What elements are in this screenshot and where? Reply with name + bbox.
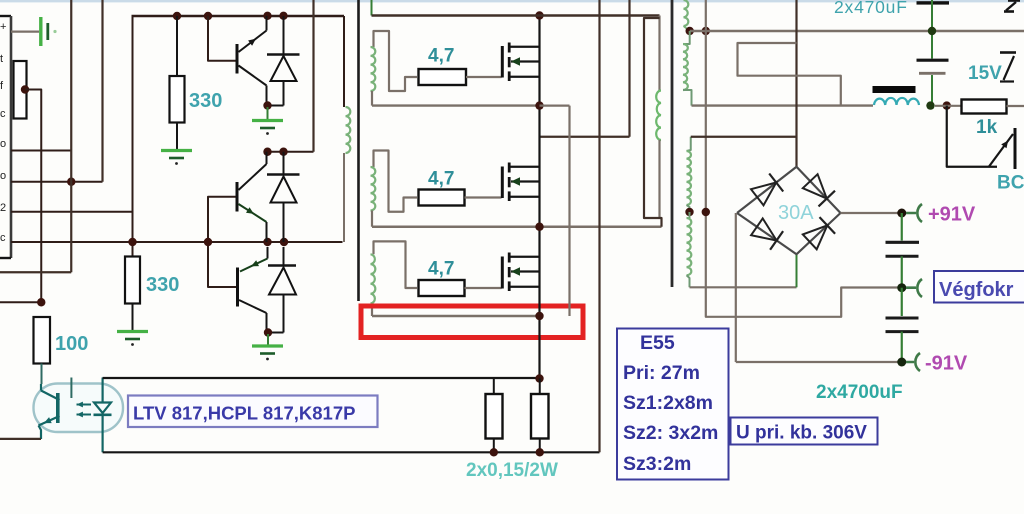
transistor Q2 [236, 152, 267, 242]
long vertical wire col x=600 [598, 0, 600, 452]
vertical wire col x=569 [568, 106, 570, 316]
transistor BC (cut at edge) [947, 106, 1017, 169]
ground under R3 [117, 332, 148, 346]
gate transformer core [357, 0, 360, 301]
svg-text:2: 2 [0, 202, 6, 214]
wire S3 to bridge bottom [690, 286, 797, 288]
wire row y=302 from left edge [0, 301, 41, 303]
svg-text:2x4700uF: 2x4700uF [816, 382, 903, 403]
supply rail y=16 left section [132, 15, 345, 17]
MOSFET M2 [501, 163, 540, 202]
junction dot col539 y316 [535, 312, 543, 320]
wire to Q1 base [208, 16, 236, 61]
zener 15V [1000, 53, 1016, 82]
IC pin wire row 4 (driver rail) [11, 241, 343, 243]
wire W3 return inside red box [372, 315, 540, 317]
resistor 4,7 (R7) [419, 280, 465, 296]
cap C1 lead green column [931, 0, 933, 59]
label box U pri [731, 418, 878, 445]
junction dot col539 y106 [535, 101, 543, 109]
svg-text:o: o [0, 170, 6, 182]
svg-text:15V: 15V [968, 63, 1002, 84]
svg-text:E55: E55 [640, 332, 675, 354]
junction dot row4 x132 [128, 238, 136, 246]
red highlight box [361, 306, 583, 338]
MOSFET source/drain column x=539 [538, 16, 540, 379]
center tap column x=705 [706, 0, 902, 317]
long vertical wire col x=629 [628, 0, 630, 137]
secondary winding S3 [687, 212, 692, 287]
diode D3 [267, 247, 297, 333]
cap C2 bottom lead [901, 256, 903, 287]
main transformer primary winding [644, 16, 662, 227]
capacitor C1 2x470uF [917, 60, 949, 73]
wire W1 return rail y=106 [372, 104, 540, 106]
junction dot x283 row151 [279, 148, 287, 156]
terminal Vegfok [906, 279, 922, 297]
IC pin wire row 3 [11, 211, 133, 213]
junction dot col539 top rail [535, 11, 543, 19]
svg-text:+91V: +91V [928, 204, 976, 226]
zener at top right (cut) [1004, 1, 1020, 12]
capacitor C2 [886, 242, 920, 256]
junction dot Rb bottom [536, 448, 544, 456]
junction dot col539 y227 [535, 223, 543, 231]
opto top rail to sense resistors [103, 377, 541, 379]
junction dot sec top x689 [686, 27, 694, 35]
feedback resistor block at IC edge [14, 61, 27, 119]
R3 lead to ground [132, 304, 134, 331]
junction dot -91V [897, 358, 906, 367]
svg-text:330: 330 [189, 90, 222, 112]
svg-text:BC5: BC5 [997, 173, 1024, 194]
svg-text:Sz3:2m: Sz3:2m [623, 453, 691, 475]
svg-text:30A: 30A [778, 202, 814, 224]
svg-text:Végfokr: Végfokr [939, 279, 1014, 301]
label box E55 transformer data [617, 329, 729, 480]
optocoupler pin stub [70, 378, 72, 399]
svg-text:100: 100 [55, 333, 88, 355]
junction dot Q3 emitter node [264, 328, 272, 336]
junction dot sec top x705 [702, 27, 710, 35]
aux rail y=31 [690, 30, 1024, 33]
svg-text:LTV 817,HCPL 817,K817P: LTV 817,HCPL 817,K817P [133, 403, 355, 424]
resistor R1 330 [170, 76, 185, 123]
svg-text:2x0,15/2W: 2x0,15/2W [466, 460, 558, 481]
svg-text:1k: 1k [976, 117, 998, 138]
drive winding W3 [371, 241, 418, 316]
sense resistor Ra 0,15 [486, 379, 503, 453]
junction dot row4 x208 [204, 238, 212, 246]
main top rail y=15.5 [372, 14, 660, 16]
sense resistor Rb 0,15 [531, 379, 549, 453]
optocoupler LED arrows [77, 402, 92, 418]
bridge diode top-left [751, 174, 783, 206]
svg-text:+: + [0, 21, 6, 33]
secondary winding S1 [683, 31, 692, 106]
long vertical wire col x=71 [0, 0, 71, 272]
junction dot Ra bottom [490, 448, 498, 456]
junction dot rail x267 [263, 12, 271, 20]
junction dot x41 row302 [37, 298, 45, 306]
junction dot sec tap x689 [685, 208, 693, 216]
junction dot row2/col71 [67, 178, 75, 186]
svg-text:2x470uF: 2x470uF [834, 0, 908, 17]
junction dot rail x177 [173, 12, 181, 20]
MOSFET M1 [501, 43, 540, 82]
wire R5 to M1 gate [466, 76, 502, 78]
resistor R4 100 [34, 317, 51, 364]
wire D2 node to top column x313 [268, 151, 314, 153]
svg-text:330: 330 [146, 274, 179, 296]
wire feedback to column [25, 90, 41, 303]
diode D1 [267, 16, 300, 106]
wire S1 to filter inductor y=106 [692, 104, 874, 106]
junction dot +91V [897, 209, 906, 218]
junction dot rail x283 [279, 12, 287, 20]
R1 lead to ground [176, 123, 178, 150]
junction dot col539 y378 [535, 374, 543, 382]
gate transformer primary winding [344, 16, 350, 242]
terminal -91V [906, 353, 920, 371]
svg-text:o: o [0, 138, 6, 150]
cap C3 top lead [901, 288, 903, 316]
junction dot sec tap x705 [702, 208, 710, 216]
resistor 1k [935, 100, 1024, 114]
transistor Q3 [236, 247, 268, 333]
label box LTV817 [128, 396, 378, 428]
svg-text:t: t [0, 53, 3, 65]
junction dot Q1 emitter node [263, 101, 271, 109]
svg-text:Pri: 27m: Pri: 27m [623, 362, 700, 384]
long vertical wire col x=102 [101, 0, 103, 182]
bridge top column [795, 0, 797, 167]
opto bottom rail [103, 451, 600, 453]
IC pin wire row 2 [11, 181, 103, 183]
drive winding W2 [371, 151, 418, 227]
optocoupler LED [94, 378, 112, 453]
resistor R1 330 top lead [176, 16, 178, 76]
svg-text:U pri. kb. 306V: U pri. kb. 306V [736, 423, 867, 444]
optocoupler U2 body [34, 384, 124, 433]
bridge diode bottom-left [751, 218, 783, 249]
filter inductor L1 [873, 86, 920, 105]
wire R7 to M3 gate [465, 287, 502, 289]
node dot on feedback block [21, 85, 29, 93]
cap C3 bottom lead [901, 332, 903, 362]
wire R6 to M2 gate [465, 196, 502, 198]
resistor R3 330 (lower) [125, 257, 140, 304]
resistor 4,7 (R6) [419, 190, 465, 206]
IC U1 box (cut at left edge) [0, 16, 11, 258]
cap C2 top lead [901, 213, 903, 241]
secondary winding S0 (top, cut) [684, 0, 690, 31]
transistor Q1 [236, 16, 267, 106]
ground under D1 [267, 107, 269, 120]
svg-text:4,7: 4,7 [428, 46, 454, 67]
terminal +91V [906, 204, 922, 222]
wire +91V [841, 212, 902, 214]
junction dot rail x208 [204, 12, 212, 20]
capacitor C3 [886, 318, 919, 332]
svg-text:4,7: 4,7 [428, 259, 454, 280]
wire S2 to bridge top [691, 136, 797, 138]
ground under Q3 [267, 334, 269, 345]
wire M2 drain to col 629 [540, 136, 630, 138]
junction dot row4 x283 [280, 238, 288, 246]
bridge minus column [735, 213, 737, 362]
svg-text:c: c [0, 108, 6, 120]
wire W2 return rail y=227 [372, 226, 662, 228]
wire -91V rail [736, 361, 902, 363]
diode D2 [267, 152, 300, 242]
cap C1 lower lead [931, 75, 933, 106]
ground symbol near IC pin (rotated) [11, 17, 57, 46]
optocoupler phototransistor [39, 384, 60, 439]
aux 15V loop wires [738, 43, 841, 106]
svg-text:Sz1:2x8m: Sz1:2x8m [623, 392, 713, 414]
wire opto emitter to left edge [0, 438, 41, 440]
svg-text:4,7: 4,7 [428, 169, 454, 190]
MOSFET M3 [501, 253, 540, 292]
R4 lead to optocoupler [41, 364, 43, 385]
bridge diode top-right [803, 174, 835, 206]
long vertical wire col x=313 [312, 0, 314, 152]
bridge rectifier 30A outline [737, 167, 841, 255]
secondary winding S2 [687, 137, 692, 212]
wire to Q2/Q3 bases [208, 197, 236, 287]
wire M1 source to col 569 [540, 104, 570, 106]
junction dot 15V node [943, 101, 951, 109]
junction dot 15V node green [926, 101, 934, 109]
junction dot Vegfok node [897, 283, 906, 292]
svg-text:Sz2: 3x2m: Sz2: 3x2m [623, 422, 718, 444]
top border strip [0, 0, 1024, 2]
main transformer core [671, 0, 674, 287]
ground under R1 [161, 151, 192, 165]
junction dot x267 row151 [263, 148, 271, 156]
bridge diode bottom-right [803, 217, 835, 249]
svg-text:-91V: -91V [925, 353, 968, 375]
drive winding W1 [371, 31, 418, 106]
bridge bottom lead [796, 254, 798, 287]
green stub to top edge [371, 0, 373, 16]
vertical wire col x=132 to resistor 330 R2 [132, 16, 134, 257]
svg-text:c: c [0, 232, 6, 244]
label box Vegfokr [934, 271, 1024, 303]
junction dot row4 x267 [263, 238, 271, 246]
capacitor C1 plate at top edge [917, 1, 950, 4]
junction dot green col y31 [928, 27, 936, 35]
resistor 4,7 (R5) [419, 69, 467, 85]
IC pin wire row 1 [11, 150, 71, 152]
